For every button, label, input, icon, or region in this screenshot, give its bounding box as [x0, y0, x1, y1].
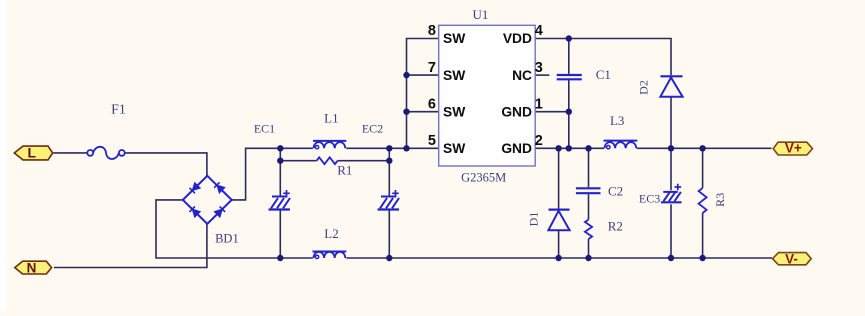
svg-text:SW: SW — [443, 31, 466, 46]
svg-text:GND: GND — [501, 104, 532, 119]
svg-text:GND: GND — [501, 141, 532, 156]
svg-text:V-: V- — [785, 251, 798, 266]
svg-text:SW: SW — [443, 68, 466, 83]
svg-text:EC3: EC3 — [639, 191, 660, 205]
svg-text:F1: F1 — [111, 103, 126, 118]
svg-text:7: 7 — [428, 60, 436, 76]
svg-text:5: 5 — [428, 133, 436, 149]
svg-text:3: 3 — [535, 60, 543, 76]
svg-text:C1: C1 — [596, 67, 611, 82]
svg-text:6: 6 — [428, 96, 436, 112]
svg-text:4: 4 — [535, 23, 543, 39]
svg-text:C2: C2 — [608, 184, 623, 199]
svg-text:N: N — [27, 261, 37, 276]
svg-text:G2365M: G2365M — [461, 171, 506, 185]
svg-text:L2: L2 — [324, 226, 338, 241]
svg-text:8: 8 — [428, 23, 436, 39]
svg-text:R1: R1 — [337, 163, 352, 178]
svg-text:EC2: EC2 — [362, 122, 383, 136]
svg-text:1: 1 — [535, 96, 543, 112]
svg-text:L1: L1 — [324, 111, 338, 126]
svg-text:EC1: EC1 — [254, 122, 275, 136]
svg-text:NC: NC — [512, 68, 532, 83]
svg-text:R3: R3 — [713, 193, 727, 207]
svg-text:SW: SW — [443, 141, 466, 156]
svg-text:D1: D1 — [527, 212, 541, 227]
svg-text:L: L — [28, 144, 37, 160]
svg-text:R2: R2 — [608, 218, 623, 233]
svg-text:VDD: VDD — [503, 31, 532, 46]
svg-text:U1: U1 — [473, 7, 489, 22]
svg-text:BD1: BD1 — [215, 231, 239, 245]
svg-text:D2: D2 — [636, 80, 650, 95]
svg-text:L3: L3 — [610, 113, 624, 128]
svg-text:2: 2 — [535, 133, 543, 149]
svg-text:SW: SW — [443, 104, 466, 119]
svg-text:V+: V+ — [785, 140, 802, 155]
